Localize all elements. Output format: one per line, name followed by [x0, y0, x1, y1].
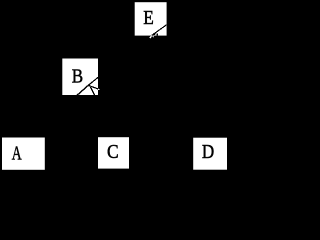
- svg-text:E: E: [143, 7, 154, 28]
- svg-text:B: B: [72, 65, 83, 86]
- svg-text:C: C: [107, 141, 119, 163]
- svg-text:A: A: [12, 142, 23, 164]
- svg-text:D: D: [202, 141, 214, 162]
